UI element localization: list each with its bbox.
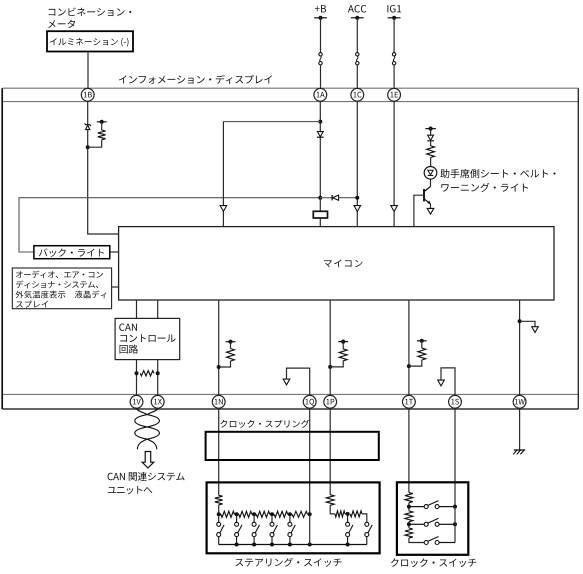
unit frame information display	[2, 88, 578, 409]
wire microcomputer to CAN L	[136, 300, 138, 318]
junction dots bottom bus	[235, 543, 350, 547]
label combination meter	[48, 8, 131, 29]
connector 1S	[449, 395, 462, 408]
wire zener to junction	[87, 130, 89, 148]
junction dot 1W	[518, 319, 522, 323]
resistor CAN termination	[140, 371, 154, 376]
junction dot 1A top	[318, 120, 322, 124]
wire diode to junction2	[319, 137, 321, 197]
junction dots ladder	[217, 512, 312, 516]
resistor illumination pull-up	[98, 130, 106, 140]
connector 1A	[314, 88, 327, 101]
wire 1P jog	[330, 505, 335, 514]
wire lcd block to microcomputer	[112, 286, 119, 288]
wire backlight to microcomputer	[110, 251, 119, 253]
wire resistor to lamp	[430, 158, 432, 167]
junction dot 1S row2	[453, 522, 457, 526]
wire resistor to junction	[88, 140, 102, 148]
wire resistor to bus	[218, 505, 220, 515]
wire emitter down	[430, 204, 432, 209]
label steering switch	[235, 558, 341, 567]
resistor clock 3	[405, 528, 413, 538]
output arrow 1Q	[283, 379, 290, 385]
connector 1X	[151, 395, 164, 408]
terminal 1T pull-up	[417, 339, 427, 343]
input arrow left branch	[220, 206, 227, 212]
switch 1P-b	[365, 522, 372, 544]
junction dot 1N	[217, 365, 221, 369]
wire +B to 1A	[320, 65, 322, 89]
junction dot 1P	[328, 365, 332, 369]
diode on 1A line	[317, 132, 324, 138]
junction dot 1P-a	[346, 512, 350, 516]
junction dot 1A bottom	[318, 196, 322, 200]
wire left branch to microcomputer	[222, 122, 224, 227]
transistor Q seat belt lamp driver	[424, 187, 431, 205]
label CAN related system units	[108, 472, 185, 494]
label ACC	[348, 5, 366, 13]
wire 1A down to junction	[319, 101, 321, 132]
connector 1B	[81, 88, 94, 101]
block clock switch frame	[397, 482, 468, 555]
label clock switch	[391, 558, 476, 567]
connector 1T	[403, 395, 416, 408]
resistor 1P series	[326, 495, 334, 506]
label seat belt warning light	[440, 169, 555, 192]
resistor ladder steering	[219, 511, 310, 517]
wire CAN to 1V	[136, 360, 138, 396]
connector 1W	[513, 395, 526, 408]
terminal 1N pull-up	[226, 340, 236, 344]
wire 1W to ground	[519, 408, 521, 450]
terminal of lamp branch	[425, 127, 435, 131]
wire 1C to microcomputer	[356, 101, 358, 227]
wire microcomputer to 1T	[408, 300, 410, 395]
wire r2-r3	[408, 522, 410, 528]
wire 1Q hook	[287, 368, 310, 395]
resistor 1P-b	[350, 511, 362, 517]
terminal IG1	[388, 16, 401, 20]
coil box on 1A line	[313, 211, 327, 218]
connector 1C	[351, 88, 364, 101]
wire terminal to resistor	[101, 122, 103, 130]
resistor 1N series	[215, 495, 223, 505]
connector break on IG1	[392, 53, 395, 65]
wire +B rail to backlight	[19, 198, 320, 252]
block back light	[34, 246, 110, 259]
wire diode to resistor	[430, 141, 432, 146]
input arrow IG1	[391, 206, 398, 212]
connector break on ACC	[356, 53, 359, 65]
wire microcomputer to 1P	[329, 300, 331, 395]
resistor lamp branch	[427, 146, 435, 158]
block microcomputer	[119, 227, 554, 300]
switches steering ladder	[217, 516, 296, 544]
wire diode to ACC line	[339, 197, 358, 199]
wire IG1 down	[393, 18, 395, 53]
junction dot clock row1	[407, 505, 411, 509]
wire microcomputer to 1W	[519, 300, 521, 395]
resistor clock 2	[405, 511, 413, 522]
wire 1E to microcomputer	[393, 101, 395, 227]
terminal 1P pull-up	[338, 340, 348, 344]
resistor clock 1	[405, 493, 413, 503]
junction dot ACC	[355, 196, 359, 200]
wire IG1 to 1E	[393, 65, 395, 89]
label +B	[315, 5, 326, 12]
wire to dot	[345, 513, 348, 515]
wire +B down	[320, 18, 322, 53]
bus bottom steering	[219, 544, 367, 546]
block arrow to CAN units	[142, 452, 154, 468]
wire 1Q to steering switch	[309, 408, 311, 514]
label IG1	[387, 5, 401, 13]
zener diode on 1B line	[85, 123, 91, 129]
terminal +B	[314, 16, 327, 20]
wire lamp to transistor	[430, 179, 432, 186]
wire r3 corner	[409, 538, 424, 542]
switch clock row3	[424, 537, 455, 545]
output arrow 1W branch	[532, 327, 539, 333]
junction dot illumination	[86, 145, 90, 149]
wire microcomputer to 1N	[218, 300, 220, 395]
wire illumination to 1B	[87, 52, 89, 89]
junction dot clock row2	[407, 522, 411, 526]
wire ACC down	[356, 18, 358, 53]
connector break on +B	[319, 53, 322, 65]
connector 1N	[212, 395, 225, 408]
terminal ACC	[351, 16, 364, 20]
ground chassis	[513, 450, 525, 454]
terminal of pull-up resistor	[97, 120, 107, 124]
resistor 1P pull-up	[330, 342, 347, 367]
wire 1S hook	[441, 368, 455, 396]
switch 1P-a	[346, 514, 353, 545]
wire 1S bus	[454, 507, 456, 543]
connector 1Q	[303, 395, 316, 408]
wire ACC to 1C	[356, 65, 358, 89]
block steering switch frame	[207, 482, 380, 553]
wire junction2 to diode	[320, 197, 332, 199]
junction dot CAN-H	[156, 371, 160, 375]
connector 1E	[388, 88, 401, 101]
wire 1P to steering switch	[329, 408, 331, 495]
label clock spring	[220, 420, 309, 428]
wire base to microcomputer	[414, 195, 424, 226]
wire terminal to diode	[430, 129, 432, 136]
switch clock row1	[409, 501, 455, 509]
diode ACC to +B node	[332, 195, 339, 200]
connector 1V	[130, 395, 143, 408]
junction dot 1T	[407, 364, 411, 368]
wire 1Q bus segment	[309, 514, 311, 544]
wire CAN to 1X	[157, 360, 159, 396]
block CAN control circuit	[115, 318, 180, 359]
wire 1W branch	[520, 321, 535, 327]
wire 1B down	[87, 101, 89, 125]
wire 1B to microcomputer	[88, 147, 119, 234]
input arrow ACC	[354, 206, 361, 212]
output arrow 1S	[438, 380, 445, 386]
wire 1T to clock switch	[408, 408, 410, 492]
junction dot 1S row1	[453, 505, 457, 509]
switch clock row2	[409, 518, 455, 526]
resistor 1N pull-up	[219, 342, 235, 367]
wire r1-r2	[408, 503, 410, 511]
resistor 1T pull-up	[409, 341, 426, 366]
arrow emitter	[427, 208, 434, 214]
diode lamp branch	[427, 135, 434, 141]
lamp seat belt warning	[424, 167, 437, 180]
wire 1S to clock switch	[454, 408, 456, 506]
wire coil to microcomputer	[319, 218, 321, 227]
junction dot CAN-L	[135, 371, 139, 375]
twisted pair CAN bus	[135, 408, 160, 449]
block illumination(-) of combination meter	[47, 31, 133, 51]
wire to corner	[362, 514, 367, 522]
resistor 1P-a	[335, 511, 345, 517]
wire 1N to steering switch	[218, 408, 220, 495]
block audio aircon lcd display	[12, 268, 111, 309]
wire junction2 down	[319, 198, 321, 212]
connector 1P	[324, 395, 337, 408]
label information display unit	[119, 75, 272, 84]
wire microcomputer to CAN R	[157, 300, 159, 318]
block clock spring	[206, 432, 379, 460]
wire junction left	[223, 121, 320, 123]
